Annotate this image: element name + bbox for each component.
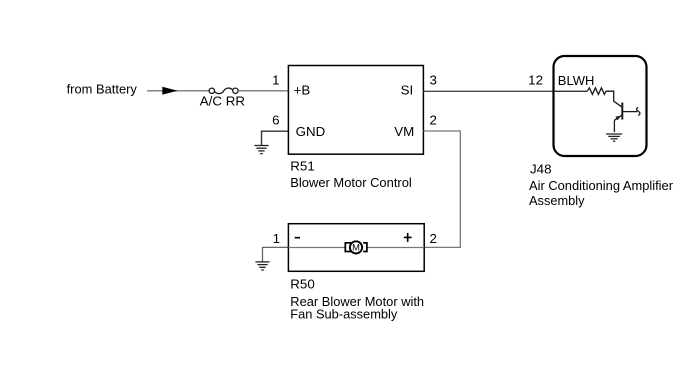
svg-text:M: M [352,242,360,253]
wire R51 GND to ground [262,131,289,145]
wire R51 SI to J48 pin 12 [423,90,553,92]
ground (R50 pin 1) [255,262,269,270]
resistor (inside J48) [587,88,606,95]
wire through R50 [288,247,424,249]
svg-text:3: 3 [430,73,437,88]
svg-text:1: 1 [273,231,280,246]
svg-text:R50: R50 [290,276,314,291]
flow arrow [162,87,177,95]
wire R50 pin 1 to ground [263,247,289,261]
svg-text:J48: J48 [530,162,552,177]
svg-text:Air Conditioning Amplifier: Air Conditioning Amplifier [529,178,674,193]
block R51 Blower Motor Control [288,66,423,155]
svg-text:Fan Sub-assembly: Fan Sub-assembly [290,306,397,321]
svg-text:GND: GND [296,124,326,139]
svg-text:from Battery: from Battery [67,82,138,97]
svg-text:Blower Motor Control: Blower Motor Control [290,175,412,190]
wire J48 internal input [555,90,588,92]
svg-text:A/C RR: A/C RR [200,94,245,109]
svg-text:R51: R51 [290,158,314,173]
svg-text:VM: VM [394,124,414,139]
svg-text:SI: SI [401,83,414,98]
wire battery to fuse [147,90,209,92]
svg-text:2: 2 [430,231,437,246]
wire R51 VM down to R50 pin 2 [423,131,460,247]
svg-text:BLWH: BLWH [558,73,595,88]
ground (R51 pin 6) [254,146,268,154]
svg-text:+B: +B [294,83,311,98]
block R50 Rear Blower Motor [288,224,424,272]
svg-text:1: 1 [272,73,279,88]
block J48 Air Conditioning Amplifier Assembly [554,56,647,156]
svg-text:6: 6 [272,112,279,127]
ground (inside J48) [606,134,622,141]
transistor Q (inside J48) [614,103,637,133]
fuse A/C RR [209,88,238,94]
svg-text:Assembly: Assembly [529,193,585,208]
wire resistor to transistor base [606,91,622,107]
polarity + (R50 pin 2) [404,233,412,242]
svg-text:2: 2 [430,112,437,127]
svg-text:12: 12 [528,73,543,88]
wire break squiggle (collector continuation) [637,107,640,115]
motor M (R50) [345,241,367,253]
polarity - (R50 pin 1) [295,237,300,239]
wire fuse to R51 pin 1 [238,90,288,92]
